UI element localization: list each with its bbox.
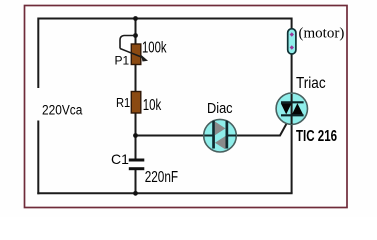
wire branch top to P1 xyxy=(135,19,137,45)
svg-text:Triac: Triac xyxy=(296,75,326,92)
potentiometer P1 xyxy=(115,36,167,68)
diac D1 xyxy=(204,100,237,152)
svg-text:10k: 10k xyxy=(143,96,162,113)
wire bottom horizontal xyxy=(37,192,292,194)
svg-text:R1: R1 xyxy=(116,95,130,110)
svg-text:(motor): (motor) xyxy=(299,26,345,42)
wire node to diac xyxy=(204,135,214,137)
node junction top xyxy=(133,16,138,21)
svg-text:220nF: 220nF xyxy=(145,168,178,185)
capacitor C1 xyxy=(111,151,178,185)
wire right vertical upper to motor xyxy=(291,18,293,30)
svg-text:100k: 100k xyxy=(142,39,167,56)
wire R1 to node xyxy=(135,113,137,161)
wire left upper xyxy=(37,18,39,89)
wire P1 to R1 xyxy=(135,65,137,92)
wire top horizontal xyxy=(38,18,291,20)
wire diac to triac gate xyxy=(227,116,291,136)
svg-text:TIC 216: TIC 216 xyxy=(296,127,337,144)
node junction gate xyxy=(133,133,138,138)
node junction wiper xyxy=(133,33,138,38)
wire motor to triac xyxy=(291,53,293,109)
motor M xyxy=(288,26,345,55)
node junction bottom xyxy=(133,191,138,196)
wire C1 to bottom xyxy=(135,169,137,194)
svg-text:P1: P1 xyxy=(115,53,130,67)
svg-text:C1: C1 xyxy=(111,151,129,167)
svg-text:Diac: Diac xyxy=(207,100,233,116)
resistor R1 xyxy=(116,92,161,114)
wire triac to bottom xyxy=(291,108,293,193)
triac TIC 216 xyxy=(276,75,337,144)
svg-text:220Vca: 220Vca xyxy=(42,102,83,118)
wire left lower xyxy=(37,121,39,195)
wire node horizontal xyxy=(136,135,205,137)
